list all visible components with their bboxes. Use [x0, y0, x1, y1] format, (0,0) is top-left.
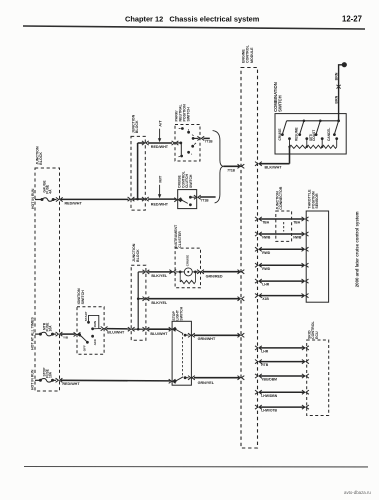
wire JB3 to instrument cluster (BLK/YEL): [148, 271, 173, 273]
connector PNP left edge: [172, 141, 179, 145]
connector IC right edge: [197, 270, 204, 274]
wire combination switch to ECM: [289, 147, 291, 164]
wire ECM to TPS row 1 (TBA): [260, 218, 305, 220]
svg-text:RWD: RWD: [262, 267, 271, 271]
wire fuse2 to ignition switch: [61, 333, 75, 335]
wire CCC out stub: [200, 196, 216, 198]
wire SLS to ECM (GRN/WHT): [194, 334, 239, 336]
combination switch contact 1: [288, 137, 291, 140]
svg-text:SWITCH: SWITCH: [189, 174, 193, 188]
wire RED/WHT fuse1 to JB2: [61, 198, 128, 200]
footer rule: [24, 466, 368, 468]
connector ECM right (comb. switch): [255, 162, 262, 166]
combination switch contact 2: [305, 137, 308, 140]
wire ECM to skid control ECU row 5 (LHW/OTB): [260, 406, 305, 408]
svg-text:BLK/YEL: BLK/YEL: [151, 301, 168, 305]
svg-text:7T1B: 7T1B: [227, 168, 235, 172]
svg-text:X1B: X1B: [262, 297, 269, 301]
svg-text:7T1B: 7T1B: [205, 139, 213, 143]
JB3 internal wires: [133, 328, 144, 330]
wire ECM to TPS row 6 (X1B): [260, 295, 305, 297]
junction block JB1: [35, 168, 60, 391]
svg-text:RED/WHT: RED/WHT: [151, 203, 169, 207]
connector ECM left (brace wire): [238, 164, 245, 168]
connector IC left edge: [169, 270, 176, 274]
cruise control clutch switch S2 (solid box): [178, 190, 197, 209]
wire ECM to TPS row 5 (LHR): [260, 280, 305, 282]
svg-text:RWD: RWD: [262, 251, 271, 255]
svg-text:avto-dbaza.ru: avto-dbaza.ru: [344, 490, 371, 495]
svg-text:HOT IN RUN: HOT IN RUN: [31, 188, 35, 209]
connector JB2 right edge (A/T out): [142, 141, 149, 145]
svg-text:10A: 10A: [49, 371, 53, 378]
svg-text:RTB: RTB: [261, 363, 269, 367]
svg-text:OFF: OFF: [83, 345, 87, 351]
wire ECM to skid control ECU row 4 (LHW/DBN): [260, 391, 305, 393]
IC after-lamp stub: [192, 271, 198, 273]
svg-text:ECU: ECU: [315, 331, 319, 339]
connector at JB1 edge (fuse2 out): [56, 332, 63, 336]
terminal end of BRN wire: [342, 62, 347, 67]
svg-text:BLU/WHT: BLU/WHT: [107, 331, 125, 335]
svg-text:2000 and later cruise control: 2000 and later cruise control system: [355, 211, 360, 287]
svg-text:RUN: RUN: [93, 321, 97, 328]
wire JB3 to stop light switch (BLU/WHT): [148, 328, 170, 330]
svg-text:12-27: 12-27: [342, 15, 362, 24]
connector at JB1 edge (fuse1 out): [56, 197, 63, 201]
wire RED/WHT JB2 to park/neutral switch: [148, 142, 172, 144]
wire stop fuse to SLS (RED/WHT): [61, 379, 170, 382]
skid control ECU (dashed box): [307, 340, 329, 416]
svg-text:CRUISE: CRUISE: [185, 255, 189, 266]
svg-text:LHR: LHR: [262, 283, 270, 287]
svg-text:SENSOR: SENSOR: [315, 193, 319, 209]
svg-text:BLOCK: BLOCK: [135, 120, 139, 133]
wire ECM to skid control ECU row 3 (YBU/DBM): [260, 375, 305, 377]
connector ECM left (IC wire): [238, 270, 245, 274]
ignition switch S4 (dashed box): [77, 307, 104, 355]
svg-text:SWITCH: SWITCH: [277, 95, 282, 112]
combination switch contact 3: [321, 137, 324, 140]
junction block JB2: [131, 136, 145, 210]
svg-text:MODULE: MODULE: [250, 47, 254, 63]
bracket linking START and RUN: [89, 315, 99, 328]
svg-text:Y/B: Y/B: [63, 336, 69, 340]
svg-text:BLK/WHT: BLK/WHT: [265, 166, 283, 170]
svg-text:START: START: [84, 311, 88, 321]
connector JB2 left edge (main in): [128, 197, 135, 201]
svg-text:RED/WHT: RED/WHT: [65, 202, 83, 206]
connector ECM left (GRN/YEL): [238, 376, 245, 380]
connector CCC left edge: [174, 198, 181, 202]
svg-text:HOT AT ALL TIMES: HOT AT ALL TIMES: [31, 317, 35, 350]
connector ECM left (BLK/YEL wire): [238, 297, 245, 301]
connector SLS left edge (upper): [169, 327, 176, 331]
wire BRN up to terminal: [339, 65, 344, 121]
lamp CRUISE indicator: [184, 268, 192, 276]
svg-text:CANCEL: CANCEL: [327, 128, 331, 141]
svg-text:LHW/OTB: LHW/OTB: [261, 409, 277, 413]
wire IC to ECM (GRN/RED): [203, 271, 239, 273]
connector PNP right edge: [197, 136, 204, 140]
svg-text:HOT IN RUN: HOT IN RUN: [31, 369, 35, 390]
combination switch contact 4: [335, 137, 338, 140]
connector JB3 right edge (to IC): [143, 270, 150, 274]
stop light switch mechanical link (dashed): [182, 333, 184, 377]
svg-text:CRUISE: CRUISE: [278, 128, 282, 140]
svg-text:TBA: TBA: [293, 221, 301, 225]
connector CCC right edge: [194, 195, 201, 199]
connector SLS left edge (lower): [169, 379, 176, 383]
ignition switch contacts: [79, 333, 81, 335]
header rule: [23, 26, 365, 29]
svg-text:RESUME: RESUME: [295, 127, 299, 141]
svg-text:YBU/DBM: YBU/DBM: [261, 378, 277, 382]
resistor R3: [322, 145, 337, 148]
connector ignition switch left edge: [74, 332, 81, 336]
svg-text:BLOCK: BLOCK: [39, 152, 43, 165]
wire ignition switch to JB3 (BLU/WHT): [99, 328, 101, 330]
svg-text:RED/WHT: RED/WHT: [151, 145, 169, 149]
fuse F2 IGN FUSE 10A: [35, 333, 40, 335]
PNP internal contacts: [181, 127, 184, 130]
combination switch lever 4: [337, 120, 340, 123]
wire PNP out stub: [203, 137, 209, 139]
svg-text:A/T: A/T: [158, 120, 163, 127]
IC input stub: [175, 271, 184, 273]
junction block JB3 (dashed box): [131, 265, 146, 340]
resistor R1: [290, 145, 307, 148]
connector ECM left (GRN/WHT): [238, 333, 245, 337]
wire ECM to TPS row 3 (RWD): [260, 248, 305, 250]
wire SLS to ECM (GRN/YEL): [194, 377, 239, 379]
svg-text:RED/WHT: RED/WHT: [62, 382, 80, 386]
wire ECM to skid control ECU row 1 (LHR): [260, 347, 305, 349]
svg-text:LHW/DBN: LHW/DBN: [261, 394, 278, 398]
combination switch lever 1: [282, 121, 286, 134]
junction connector internal dash: [283, 222, 285, 232]
svg-text:BRN: BRN: [335, 72, 339, 80]
wire ECM to skid control ECU row 2 (RTB): [260, 361, 305, 363]
node JB2 split: [136, 198, 139, 201]
svg-text:ACC: ACC: [93, 338, 97, 345]
svg-text:CONNECTOR: CONNECTOR: [279, 186, 283, 209]
node resistor junctions: [288, 146, 290, 148]
SLS upper switch: [174, 328, 177, 331]
svg-text:NWB: NWB: [293, 236, 302, 240]
park/neutral position switch S1 (dashed box): [175, 125, 200, 162]
svg-text:BLK/YEL: BLK/YEL: [151, 274, 168, 278]
connector SLS right edge (lower): [188, 376, 195, 380]
connector JB2 right edge (M/T out): [142, 197, 149, 201]
svg-text:GRN/YEL: GRN/YEL: [198, 381, 215, 385]
svg-text:SWITCH: SWITCH: [186, 107, 190, 122]
wire RED/WHT JB2 to cruise clutch switch: [148, 198, 176, 200]
svg-text:BLOCK: BLOCK: [136, 249, 140, 262]
splice cross on BRN wire: [337, 85, 341, 89]
svg-text:M/T: M/T: [158, 175, 163, 182]
svg-text:COAST: COAST: [312, 130, 316, 141]
connector at JB1 edge (fuse3 out): [56, 378, 63, 382]
resistor parallel with lamp: [179, 272, 181, 282]
svg-text:BRN: BRN: [335, 95, 339, 103]
wire JB3 to ECM (BLK/YEL): [148, 298, 239, 300]
combination switch S3 (solid box): [275, 114, 346, 154]
combination switch top rail: [287, 120, 339, 122]
fuse F1 GAUGE FUSE 4A: [35, 199, 42, 201]
connector JB3 left edge: [128, 327, 135, 331]
svg-text:SWITCH: SWITCH: [81, 290, 85, 305]
svg-text:LHR: LHR: [261, 350, 269, 354]
svg-text:7T1B: 7T1B: [201, 198, 209, 202]
instrument cluster (dashed box): [175, 248, 200, 288]
svg-text:10A: 10A: [49, 325, 53, 332]
resistor R2: [307, 145, 322, 148]
svg-text:GRN/WHT: GRN/WHT: [198, 337, 216, 341]
wire inside JB2: [133, 198, 144, 200]
junction connector (dashed box): [276, 211, 292, 241]
svg-text:BLU/WHT: BLU/WHT: [150, 332, 168, 336]
svg-text:4A: 4A: [49, 189, 53, 194]
wire JB2 vertical branch: [137, 143, 139, 199]
brace merging A/T and M/T branches: [213, 131, 224, 203]
svg-text:CLUSTER: CLUSTER: [178, 231, 182, 248]
wire PNP output: [193, 137, 198, 139]
wire brace to ECM: [223, 165, 239, 167]
engine control module ECM (dashed box): [241, 68, 258, 449]
svg-text:Chapter 12 Chassis electrica: Chapter 12 Chassis electrical system: [125, 15, 260, 24]
stop light switch S5 (solid box): [172, 321, 191, 385]
svg-text:SWITCH: SWITCH: [179, 306, 183, 320]
connector JB3 right edge (to stop light switch): [143, 327, 150, 331]
svg-text:TBA: TBA: [262, 221, 270, 225]
wire ECM to TPS row 4 (RWD): [260, 264, 305, 266]
throttle position sensor (solid box): [306, 211, 328, 302]
combination switch lever 2: [303, 120, 306, 123]
fuse F3 STOP FUSE 10A: [35, 379, 40, 381]
svg-text:NWB: NWB: [262, 236, 271, 240]
connector SLS right edge (upper): [188, 333, 195, 337]
SLS lower switch: [174, 380, 177, 383]
wire ECM to TPS row 2 (NWB): [260, 233, 305, 235]
CCC internal switch: [180, 198, 183, 201]
combination switch lever 3: [319, 120, 322, 123]
connector ignition switch right edge: [101, 327, 108, 331]
svg-text:GRN/RED: GRN/RED: [206, 274, 223, 278]
connector JB3 right edge (to ECM): [143, 297, 150, 301]
